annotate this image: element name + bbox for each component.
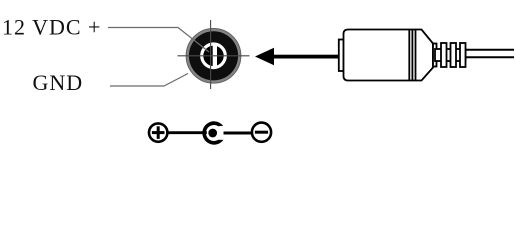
svg-text:12 VDC +: 12 VDC + [2, 15, 101, 40]
svg-text:GND: GND [33, 70, 84, 95]
